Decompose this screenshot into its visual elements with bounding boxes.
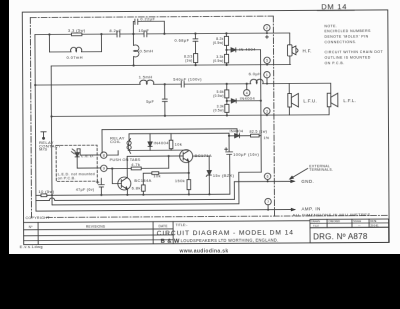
pin 2 molex	[264, 25, 270, 34]
resistor 10k coupling label	[153, 173, 161, 178]
PCB chain-dot outline	[30, 15, 388, 217]
node ground rail F	[208, 193, 210, 195]
resistor 3.3k LF divider	[225, 104, 229, 115]
drawing frame	[22, 10, 389, 245]
svg-text:ENCIRCLED NUMBERS: ENCIRCLED NUMBERS	[324, 29, 371, 33]
transistor Q2 BC184	[180, 150, 193, 180]
node pin1	[266, 83, 268, 85]
svg-text:15v (BZX): 15v (BZX)	[213, 173, 235, 178]
resistor 3.3k HF label	[213, 55, 224, 63]
box LED dashed	[56, 145, 97, 181]
wire HF return rail	[51, 64, 290, 65]
speaker LFU	[288, 93, 299, 107]
resistor 8.2k HF divider	[224, 33, 228, 54]
resistor 8.2/3 (1w) zobel	[194, 54, 198, 66]
speaker HF	[287, 45, 298, 56]
wire LF feed rail	[35, 84, 267, 85]
node pin2	[266, 32, 268, 34]
svg-text:DATE: DATE	[159, 224, 168, 228]
pin 3 number	[246, 91, 248, 95]
wire amp in external	[268, 208, 295, 211]
speaker HF label	[303, 48, 312, 53]
node ground rail B	[100, 194, 102, 196]
wire ground vertical	[50, 66, 53, 205]
svg-text:5µF: 5µF	[146, 99, 154, 104]
svg-text:10k: 10k	[153, 173, 161, 178]
amp in label	[301, 206, 320, 211]
node pin7	[267, 209, 269, 211]
svg-text:ALL DIMENSIONS IN MILLIMETRES: ALL DIMENSIONS IN MILLIMETRES	[293, 212, 371, 217]
capacitor 10uF	[144, 31, 147, 37]
capacitor 0.22uF label	[140, 16, 155, 21]
resistor 3.3k HF divider	[224, 54, 228, 65]
pin 5 number	[266, 59, 268, 63]
wire gnd external	[268, 180, 295, 183]
inductor 0.5mH label	[140, 48, 154, 53]
svg-text:10k: 10k	[175, 142, 183, 147]
inductor 6.0uH label	[249, 71, 262, 76]
svg-text:6.0µH: 6.0µH	[249, 71, 262, 76]
wire Q1 base	[112, 169, 121, 184]
capacitor 5uF shunt	[162, 84, 167, 116]
node pin3 tap	[246, 83, 248, 85]
external terminals label	[309, 164, 333, 172]
svg-text:GND.: GND.	[301, 179, 314, 184]
wire Q2 zener link	[193, 155, 209, 157]
resistor 4.7k label	[131, 162, 140, 167]
wire relay bottom	[128, 149, 188, 151]
resistor 4.7k	[112, 167, 169, 170]
wire gnd rail mid with hop	[36, 182, 235, 201]
node base join	[168, 155, 170, 157]
node HF B	[100, 33, 102, 35]
node LF return divider	[226, 114, 228, 116]
pin 1 number	[266, 73, 268, 77]
svg-text:1: 1	[266, 73, 268, 77]
svg-text:TITLE:-: TITLE:-	[176, 223, 188, 227]
capacitor 100uF label	[233, 152, 259, 157]
wire amp rail	[36, 210, 268, 211]
svg-text:Nº: Nº	[29, 225, 34, 229]
svg-text:100µF (16v): 100µF (16v)	[233, 152, 259, 157]
capacitor 5uF label	[146, 99, 154, 104]
node LF divider tap	[226, 83, 228, 85]
resistor 10 label	[38, 189, 54, 194]
resistor 150k	[187, 180, 191, 195]
capacitor 100uF	[226, 133, 233, 154]
speaker LFL	[327, 93, 338, 107]
node ground LF	[50, 115, 52, 117]
svg-text:BC184A: BC184A	[134, 178, 151, 183]
drg number text	[313, 232, 368, 241]
speaker LFL label	[343, 98, 356, 103]
node ground rail C	[126, 194, 128, 196]
svg-text:CONNECTIONS.: CONNECTIONS.	[324, 40, 356, 44]
diode IN4004 LF sense	[227, 99, 261, 103]
svg-text:82.5 (1w): 82.5 (1w)	[250, 130, 268, 134]
pin 9 number	[103, 167, 105, 171]
capacitor 8.2uF	[117, 31, 120, 37]
node pin5	[266, 64, 268, 66]
resistor 10 (5w)	[41, 194, 47, 197]
node HF C	[132, 33, 134, 35]
svg-text:DM 14: DM 14	[321, 2, 347, 11]
svg-text:(0.5w): (0.5w)	[213, 59, 224, 63]
svg-text:2: 2	[266, 26, 268, 30]
wire HF speaker feed	[267, 33, 290, 45]
node HF divider tap	[225, 32, 227, 34]
svg-text:1.5mH: 1.5mH	[139, 74, 153, 79]
node return B	[194, 64, 196, 66]
svg-text:0.07mH: 0.07mH	[67, 55, 83, 60]
svg-text:SCALE: SCALE	[353, 220, 361, 223]
capacitor 10uF label	[138, 28, 149, 33]
wire 4.7k riser	[168, 156, 170, 168]
node LF return shunt	[164, 115, 166, 117]
svg-text:6: 6	[267, 175, 269, 179]
diode IN4004 HF label	[239, 47, 256, 52]
diode IN4004 HF sense	[227, 48, 261, 52]
sheet title DM 14	[321, 2, 347, 11]
svg-text:L.F.U.: L.F.U.	[303, 98, 317, 103]
node LF input	[34, 84, 36, 86]
capacitor 47uF label	[76, 188, 95, 192]
node ground rail E	[188, 193, 190, 195]
diode supply label	[229, 129, 243, 133]
pin 7 molex	[265, 198, 271, 209]
transistor Q1 BC184	[118, 156, 131, 195]
led L.E.D.	[71, 149, 100, 168]
revisions headers	[29, 223, 188, 229]
svg-text:8: 8	[103, 154, 105, 158]
wire HF feed rail	[35, 33, 267, 34]
led label	[81, 153, 95, 158]
watermark	[178, 248, 228, 254]
node return C	[225, 64, 227, 66]
svg-text:B & W: B & W	[161, 239, 180, 245]
svg-text:IN 4004: IN 4004	[239, 47, 256, 52]
pin 1 molex	[264, 72, 270, 84]
svg-text:L.F.L.: L.F.L.	[343, 98, 356, 103]
capacitor 0.22uF bypass	[133, 19, 164, 34]
led note label	[58, 172, 95, 180]
resistor 5.6k LF divider	[225, 84, 229, 105]
node sense join	[260, 100, 262, 102]
drg number box	[310, 227, 389, 243]
wire pin8 link	[107, 151, 118, 156]
svg-text:(1w): (1w)	[185, 58, 192, 62]
inductor 0.5mH shunt	[133, 34, 139, 66]
svg-text:0.22µF: 0.22µF	[140, 16, 155, 21]
svg-text:COIL: COIL	[110, 139, 121, 144]
inductor 1.5mH	[140, 80, 154, 84]
svg-text:AMP. IN: AMP. IN	[301, 206, 320, 211]
svg-text:5: 5	[266, 59, 268, 63]
svg-text:1%: 1%	[264, 136, 270, 140]
svg-text:IN4004: IN4004	[229, 129, 243, 133]
node HF E	[194, 32, 196, 34]
relay coil	[127, 134, 131, 154]
svg-text:COPYRIGHT: COPYRIGHT	[26, 216, 51, 220]
capacitor 540uF label	[173, 76, 202, 81]
drawn checked scale date table	[310, 219, 389, 228]
node pin6	[267, 180, 269, 182]
pin 4 number	[266, 109, 268, 113]
main title text	[157, 229, 294, 244]
tiny stamp bottom left	[20, 244, 43, 249]
gnd label	[301, 179, 314, 184]
node pin4	[266, 114, 268, 116]
svg-text:LOUDSPEAKERS LTD WORTHING, EN: LOUDSPEAKERS LTD WORTHING, ENGLAND.	[181, 238, 279, 244]
svg-text:540µF (100v): 540µF (100v)	[173, 76, 202, 81]
svg-text:3.3 (5w): 3.3 (5w)	[68, 28, 86, 33]
node return A	[133, 64, 135, 66]
svg-text:www.audiodina.sk: www.audiodina.sk	[178, 248, 228, 254]
title block revisions table	[24, 221, 311, 245]
underline of DM 14	[317, 9, 354, 11]
wire LF speakers feed	[267, 83, 331, 93]
wire protection outer rail	[102, 129, 237, 153]
wire HF speaker return	[289, 56, 291, 64]
svg-text:DRG. Nº A878: DRG. Nº A878	[313, 232, 368, 241]
pin 8 number	[103, 154, 105, 158]
push on tabs label	[110, 158, 141, 162]
svg-text:(0.5w): (0.5w)	[213, 109, 224, 113]
COPYRIGHT text	[26, 216, 51, 220]
svg-text:E.v.s.Ldwg: E.v.s.Ldwg	[20, 244, 43, 249]
relay coil label	[110, 135, 125, 143]
svg-text:NOTE.: NOTE.	[324, 24, 337, 28]
diode IN4004 supply	[229, 134, 251, 138]
node HF D	[163, 33, 165, 35]
pin 6 molex	[264, 173, 270, 181]
wire Q2 base	[127, 155, 183, 157]
pin 4 molex	[264, 108, 270, 114]
node ground rail D	[142, 194, 144, 196]
svg-text:L.E.D.: L.E.D.	[81, 153, 95, 158]
note text block	[324, 24, 383, 65]
pin 7 number	[267, 200, 269, 204]
svg-text:(0.5w): (0.5w)	[213, 41, 224, 45]
inductor 1.5mH label	[139, 74, 153, 79]
speaker LFU label	[303, 98, 317, 103]
wire LF return rail	[52, 115, 267, 116]
relay contact switch	[41, 132, 46, 140]
svg-text:4.7k: 4.7k	[131, 162, 140, 167]
transistor Q1 label	[134, 178, 151, 183]
diode flyback label	[154, 140, 170, 145]
diode IN4004 LF label	[240, 96, 256, 101]
zener 15v	[206, 156, 211, 194]
svg-text:6.8k: 6.8k	[132, 185, 141, 190]
svg-text:0.5mH: 0.5mH	[140, 48, 154, 53]
pin 3 molex	[244, 84, 250, 96]
capacitor 0.68uF label	[174, 38, 189, 43]
svg-text:DRAWN: DRAWN	[311, 221, 320, 224]
polarity plus pin2	[265, 35, 268, 38]
svg-text:OUTLINE IS MOUNTED: OUTLINE IS MOUNTED	[325, 56, 371, 60]
svg-text:47µF (6v): 47µF (6v)	[76, 188, 95, 192]
wire ground rail pcb	[36, 155, 230, 196]
svg-text:IN4004: IN4004	[154, 140, 170, 145]
inductor 0.07mH label	[67, 55, 83, 60]
svg-text:IN4004: IN4004	[240, 96, 256, 101]
svg-text:REVISIONS: REVISIONS	[86, 224, 105, 228]
svg-text:4: 4	[246, 91, 248, 95]
svg-text:9: 9	[103, 167, 105, 171]
capacitor 0.68uF zobel	[193, 34, 198, 54]
svg-text:M/S: M/S	[39, 147, 47, 152]
svg-text:DATE: DATE	[370, 220, 377, 223]
resistor 3.3k LF label	[213, 105, 224, 113]
pin 2 number	[266, 26, 268, 30]
svg-text:0.68µF: 0.68µF	[174, 38, 189, 43]
resistor 10k bias	[169, 134, 173, 151]
resistor 150k label	[175, 178, 185, 183]
svg-text:3: 3	[266, 109, 268, 113]
resistor 3.3 (5w) label	[68, 28, 86, 33]
wire gnd internal	[234, 180, 267, 182]
diode IN4004 flyback	[148, 134, 152, 151]
wire main input vertical	[35, 35, 36, 212]
resistor 82.5 label	[250, 130, 270, 141]
svg-text:on P.C.B.: on P.C.B.	[58, 176, 76, 180]
dimensions note	[293, 212, 371, 217]
svg-text:ON P.C.B.: ON P.C.B.	[325, 61, 345, 65]
inductor 0.07mH parallel loop	[49, 34, 101, 52]
svg-text:DENOTE 'MOLEX' PIN: DENOTE 'MOLEX' PIN	[324, 35, 368, 39]
node ground rail A	[51, 194, 53, 196]
wire sense bus vertical	[260, 50, 263, 136]
node HF sense	[225, 49, 227, 51]
capacitor 47uF	[98, 178, 104, 195]
node LF shunt top	[164, 83, 166, 85]
drawn checked scale date texts	[311, 220, 379, 228]
svg-text:7: 7	[267, 200, 269, 204]
svg-text:150k: 150k	[175, 178, 185, 183]
relay contact label	[39, 140, 61, 152]
svg-text:CIRCUIT WITHIN CHAIN DOT: CIRCUIT WITHIN CHAIN DOT	[325, 50, 384, 54]
capacitor 8.2uF label	[109, 28, 121, 33]
transistor Q2 label	[195, 153, 212, 158]
capacitor 100uF plus	[225, 148, 228, 151]
svg-text:CHECKED: CHECKED	[328, 220, 340, 223]
node Q2 emitter tap	[188, 172, 190, 174]
svg-text:H.F.: H.F.	[303, 48, 312, 53]
resistor 10k bias label	[175, 142, 183, 147]
pin 8 molex	[101, 152, 107, 158]
resistor 82.5	[251, 134, 260, 137]
resistor 10k coupling	[143, 172, 189, 175]
wire sense corner	[239, 136, 262, 204]
node LF sense	[226, 100, 228, 102]
resistor 5.6k label	[213, 90, 224, 98]
svg-text:10µF: 10µF	[138, 28, 149, 33]
zener 15v label	[213, 173, 235, 178]
resistor 8.2/3 label	[184, 54, 193, 62]
pin 5 molex	[264, 57, 270, 63]
node Q1 base	[111, 167, 113, 169]
resistor 6.8k label	[132, 185, 141, 190]
svg-text:TERMINALS.: TERMINALS.	[309, 168, 333, 172]
resistor 6.8k	[141, 173, 145, 195]
wire protection inner rail	[129, 132, 229, 135]
resistor 8.2k label	[213, 37, 224, 45]
svg-text:CIRCUIT DIAGRAM - MODEL DM 14: CIRCUIT DIAGRAM - MODEL DM 14	[157, 229, 294, 237]
capacitor 47uF plus	[96, 181, 99, 184]
wire return rail	[52, 204, 239, 205]
inductor 6.0uH	[250, 79, 263, 83]
svg-text:8.2µF: 8.2µF	[109, 28, 121, 33]
resistor 3.3 (5w)	[71, 33, 82, 36]
node 100uF top	[228, 135, 230, 137]
svg-text:10 (5w): 10 (5w)	[38, 189, 54, 194]
pin 9 molex	[101, 165, 107, 171]
external terminals leader	[290, 168, 308, 179]
capacitor 540uF	[181, 81, 184, 87]
node HF A	[48, 33, 50, 35]
wire pin9 link	[107, 167, 112, 169]
pin 6 number	[267, 175, 269, 179]
svg-text:(0.5w): (0.5w)	[213, 94, 224, 98]
wire LF speakers return	[267, 107, 329, 115]
